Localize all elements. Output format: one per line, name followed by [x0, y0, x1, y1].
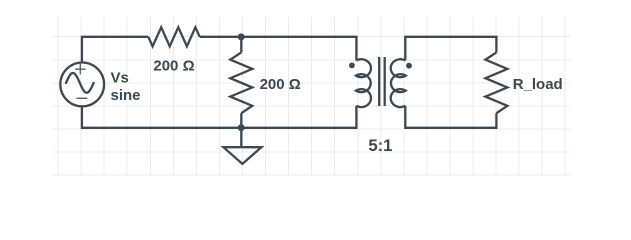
svg-text:Vs: Vs: [111, 69, 129, 86]
node B junction dot (bottom rail): [238, 124, 245, 131]
wire: transformer T1 secondary top to R_load top: [405, 37, 496, 61]
wire: node A lead down to resistor R2 top: [240, 37, 242, 53]
svg-text:R_load: R_load: [513, 76, 563, 93]
wire: source top to top-left corner to resistor R1 left lead: [82, 37, 148, 63]
transformer T1 core lines: [379, 57, 385, 106]
wire: resistor R1 right lead to transformer T1 primary top: [200, 37, 357, 61]
node A junction dot: [238, 33, 245, 40]
resistor R2 200 ohm shunt zigzag: [230, 52, 252, 113]
transformer T1 secondary phase dot: [406, 63, 412, 69]
svg-text:200 Ω: 200 Ω: [260, 76, 301, 93]
resistor R1 200 ohm series zigzag: [148, 27, 199, 46]
ground symbol: [223, 147, 261, 164]
svg-text:200 Ω: 200 Ω: [153, 58, 194, 75]
svg-text:5:1: 5:1: [368, 136, 392, 155]
resistor R_load zigzag: [485, 52, 507, 113]
voltage source Vs circle: [60, 63, 104, 107]
wire: resistor R2 bottom to bottom rail: [240, 113, 242, 128]
transformer T1 primary coil: [356, 59, 371, 107]
voltage source Vs plus sign: [75, 64, 85, 74]
wire: bottom rail to ground: [240, 128, 242, 147]
svg-text:sine: sine: [111, 87, 141, 104]
transformer T1 primary phase dot: [349, 63, 355, 69]
voltage source Vs sine waveform: [66, 73, 94, 93]
transformer T1 secondary coil: [391, 59, 406, 107]
voltage source Vs minus sign: [76, 97, 87, 99]
wire: transformer T1 secondary bottom to R_load bottom: [405, 106, 496, 128]
wire: source bottom to bottom rail to transformer T1 primary bottom: [82, 106, 357, 128]
